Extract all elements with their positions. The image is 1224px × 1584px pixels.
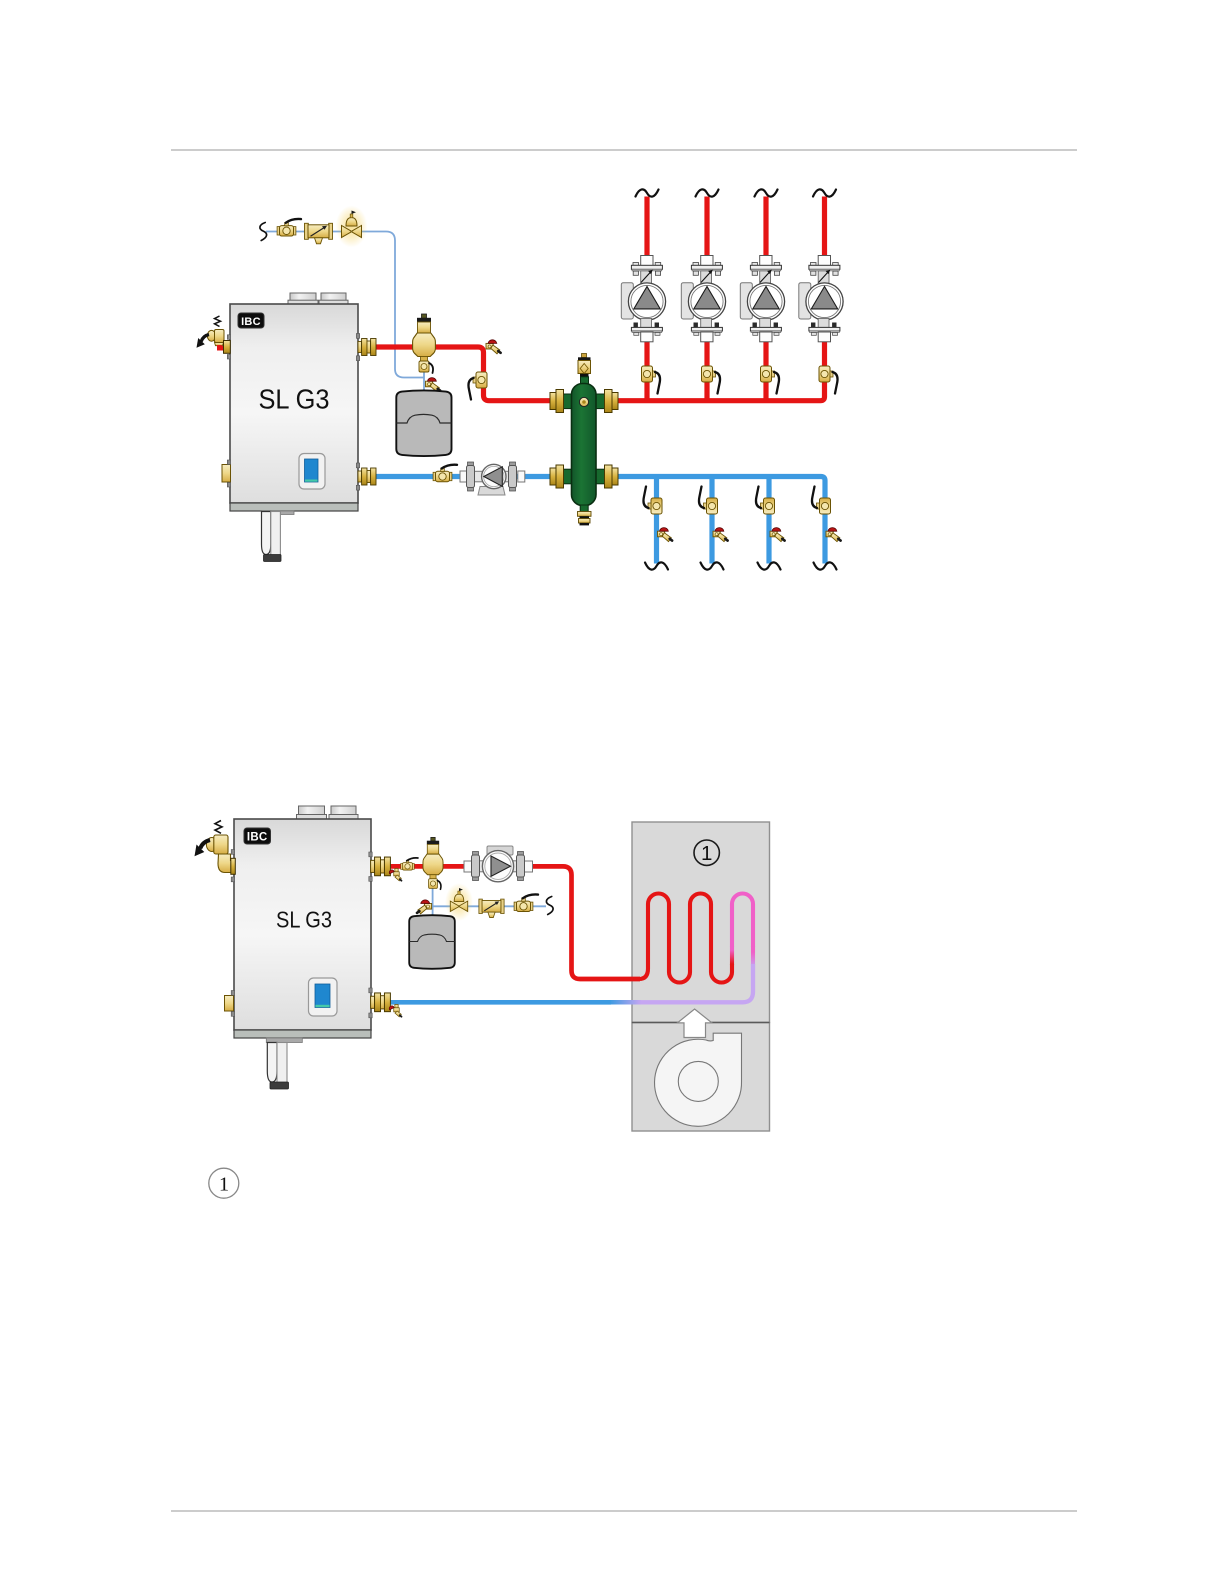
- pipe break above riser 2: [696, 189, 719, 196]
- pipe break above riser 1: [636, 189, 659, 196]
- wire: zone riser 3: [763, 197, 768, 401]
- drain under return port: [389, 1005, 401, 1017]
- boiler 2 IBC logo: [244, 828, 271, 844]
- air handler cabinet upper section: [632, 822, 770, 1023]
- wire: thin fill line branch: [433, 879, 546, 915]
- boiler 1 return union: [356, 463, 376, 490]
- return valve on drop 3: [756, 487, 775, 515]
- svg-text:IBC: IBC: [247, 832, 268, 844]
- drain on drop 4: [826, 528, 841, 542]
- boiler 2 lower left port: [225, 991, 235, 1017]
- boiler 1 display: [299, 454, 325, 490]
- pipe break above riser 3: [755, 189, 778, 196]
- wire: boiler return blue pipe: [362, 474, 552, 479]
- air handler cabinet lower section: [632, 1023, 770, 1132]
- zone pump 4: [799, 256, 843, 342]
- svg-text:1: 1: [701, 842, 712, 865]
- zone pump 3: [740, 256, 784, 342]
- zone valve on riser 3: [761, 366, 780, 394]
- pipe break below drop 2: [701, 562, 724, 569]
- boiler 1 IBC logo: [238, 313, 264, 328]
- wire: blue return pipe to boiler: [382, 1000, 611, 1005]
- boiler circulator pump (inline, flow right): [464, 846, 533, 882]
- drain on drop 2: [713, 528, 728, 542]
- wire: red supply manifold with risers: [618, 342, 825, 401]
- wire: zone riser 4 top: [822, 197, 827, 257]
- top horizontal rule: [171, 149, 1077, 151]
- return valve on drop 4: [812, 487, 831, 515]
- boiler 1 lower left port: [222, 460, 231, 487]
- boiler circulator pump (inline): [460, 462, 525, 495]
- expansion tank: [396, 390, 451, 456]
- zone pump 2: [681, 256, 725, 342]
- boiler 2 return union: [369, 988, 391, 1018]
- wire: blue return manifold with drops: [618, 477, 825, 564]
- wire: return drop 3: [766, 477, 771, 564]
- wire: boiler supply red pipe to hydraulic separator: [362, 347, 552, 401]
- drain valve at expansion tank tee: [426, 378, 441, 392]
- pipe break at fill line source: [260, 223, 267, 241]
- boiler 1 condensate trap: [262, 511, 295, 562]
- drain on drop 1: [658, 528, 673, 542]
- wire: coil transition pink to purple: [751, 946, 755, 965]
- drain on drop 3: [770, 528, 785, 542]
- fill line ball valve: [514, 894, 538, 911]
- supply isolating valve: [401, 858, 418, 870]
- svg-text:1: 1: [219, 1173, 229, 1195]
- fill line pressure reducing valve: [336, 206, 368, 248]
- boiler 1 cabinet: [230, 293, 358, 511]
- fill line ball valve: [277, 219, 301, 236]
- drain valve at expansion tank tee: [417, 900, 432, 914]
- fill line backflow preventer: [479, 899, 504, 917]
- drain under supply port: [389, 869, 401, 881]
- airflow arrow: [678, 1009, 712, 1038]
- isolating valve on red drop to separator: [468, 372, 487, 400]
- pipe break above riser 4: [813, 189, 836, 196]
- svg-text:IBC: IBC: [241, 316, 261, 328]
- boiler 1 pressure relief valve: [197, 316, 231, 359]
- pipe break below drop 3: [758, 562, 781, 569]
- zone valve on riser 1: [642, 366, 661, 394]
- wire: return drop 1: [654, 477, 659, 564]
- pipe break below drop 1: [645, 562, 668, 569]
- fill line pressure reducing valve: [445, 883, 473, 921]
- expansion tank: [409, 915, 455, 969]
- wire: return transition purple to blue: [610, 1000, 641, 1005]
- air separator on supply: [423, 837, 443, 889]
- boiler 2 cabinet: [234, 806, 371, 1038]
- pipe break below drop 4: [814, 562, 837, 569]
- return valve on drop 2: [699, 487, 718, 515]
- pipe break at fill source: [546, 897, 553, 915]
- fill line backflow preventer: [305, 223, 333, 244]
- wire: supply red pipe boiler to coil: [382, 866, 640, 979]
- zone pump 1: [621, 256, 665, 342]
- wire: coil pink loop: [732, 894, 753, 948]
- circled 1 label in air handler: [694, 840, 719, 865]
- return ball valve near boiler: [433, 465, 457, 482]
- wire: fill drop to expansion tank: [423, 356, 425, 392]
- svg-text:SL G3: SL G3: [276, 907, 332, 933]
- circled note 1: [209, 1168, 239, 1198]
- zone valve on riser 2: [702, 366, 721, 394]
- hydraulic separator: [550, 354, 618, 526]
- air separator on supply: [413, 314, 436, 373]
- boiler 2 display: [309, 978, 338, 1016]
- air handler divider: [632, 1022, 770, 1024]
- zone valve on riser 4: [819, 366, 838, 394]
- svg-text:SL G3: SL G3: [259, 383, 330, 414]
- boiler 2 supply union: [369, 852, 391, 881]
- bottom horizontal rule: [171, 1510, 1077, 1512]
- wire: coil purple return leg: [640, 964, 753, 1002]
- boiler 2 condensate trap: [266, 1038, 302, 1089]
- boiler 1 supply union: [356, 334, 376, 361]
- wire: zone riser 1: [644, 197, 649, 401]
- boiler 2 pressure relief valve: [195, 821, 236, 882]
- return valve on drop 1: [643, 487, 662, 515]
- wire: thin make-up water fill line: [266, 232, 424, 378]
- wire: zone riser 2: [704, 197, 709, 401]
- wire: return drop 2: [709, 477, 714, 564]
- drain valve at supply elbow: [486, 340, 501, 354]
- wire: coil transition red to pink: [730, 946, 734, 965]
- blower scroll: [655, 1033, 742, 1126]
